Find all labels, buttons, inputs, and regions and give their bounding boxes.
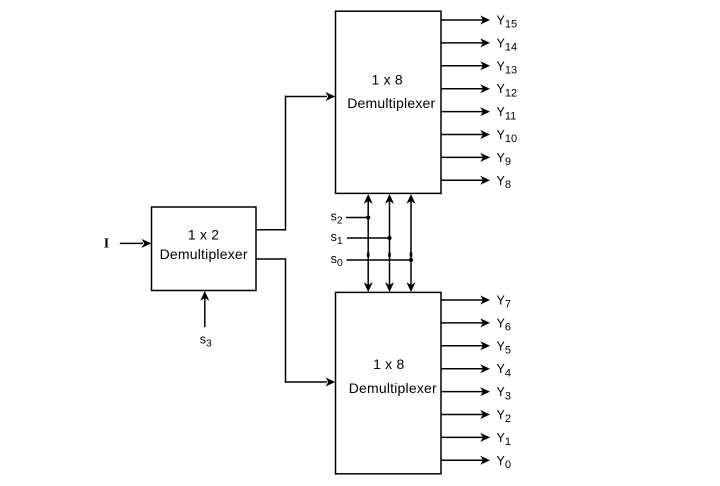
wire output Y4: [441, 368, 484, 370]
junction artifact select line A: [367, 253, 370, 257]
wire I input to U1: [120, 242, 143, 244]
wire output Y6: [441, 322, 484, 324]
arrowhead Y7: [480, 296, 490, 305]
arrowhead I into U1: [142, 239, 152, 248]
arrowhead Y8: [480, 176, 490, 185]
wire U1 bottom output horizontal into U3: [285, 381, 327, 383]
arrowhead Y3: [480, 387, 490, 396]
arrowhead Y14: [480, 38, 490, 47]
wire output Y2: [441, 414, 484, 416]
wire s0 horizontal: [347, 259, 412, 261]
wire output Y12: [441, 88, 484, 90]
svg-text:Y14: Y14: [497, 36, 518, 53]
arrowhead select line C down into U3: [407, 282, 416, 292]
svg-text:Y13: Y13: [497, 59, 518, 76]
arrowhead Y4: [480, 364, 490, 373]
svg-text:Y3: Y3: [497, 385, 511, 402]
svg-text:Y10: Y10: [497, 128, 518, 145]
arrowhead Y10: [480, 130, 490, 139]
svg-text:Y11: Y11: [497, 105, 517, 122]
arrowhead Y2: [480, 410, 490, 419]
arrowhead select line A down into U3: [364, 282, 373, 292]
wire output Y5: [441, 345, 484, 347]
svg-text:Y9: Y9: [497, 151, 511, 168]
svg-text:Demultiplexer: Demultiplexer: [160, 246, 248, 262]
svg-text:Y0: Y0: [497, 454, 511, 471]
arrowhead s3 into U1: [200, 291, 209, 301]
svg-text:1 x 8: 1 x 8: [373, 356, 404, 372]
junction s2 on select line A: [366, 215, 370, 219]
svg-text:s2: s2: [331, 210, 343, 227]
arrowhead select line C up into U2: [407, 194, 416, 204]
wire s2 horizontal: [346, 217, 368, 219]
svg-text:Y4: Y4: [497, 362, 511, 379]
wire output Y15: [441, 19, 484, 21]
svg-text:Demultiplexer: Demultiplexer: [347, 95, 435, 111]
svg-text:I: I: [104, 237, 109, 252]
arrowhead select line A up into U2: [364, 194, 373, 204]
arrowhead Y1: [480, 433, 490, 442]
svg-text:s3: s3: [200, 333, 212, 350]
wire output Y8: [441, 179, 484, 181]
wire select line A vertical: [367, 201, 369, 285]
arrowhead Y11: [480, 107, 490, 116]
svg-text:Demultiplexer: Demultiplexer: [349, 380, 437, 396]
wire select line B vertical: [389, 201, 391, 285]
junction s1 on select line B: [387, 236, 391, 240]
svg-text:Y6: Y6: [497, 316, 511, 333]
wire U1 bottom output horizontal stub: [256, 258, 286, 260]
arrowhead select line B down into U3: [385, 282, 394, 292]
svg-text:Y8: Y8: [497, 174, 511, 191]
demux U2 (top 1 x 8 Demultiplexer) box: [336, 11, 442, 193]
svg-text:Y1: Y1: [497, 431, 511, 448]
wire U1 bottom output vertical dropper: [285, 258, 287, 382]
wire s1 horizontal: [347, 237, 390, 239]
svg-text:Y2: Y2: [497, 408, 511, 425]
svg-text:1 x 2: 1 x 2: [188, 226, 219, 242]
svg-text:Y15: Y15: [497, 14, 518, 31]
arrowhead select line B up into U2: [385, 194, 394, 204]
arrowhead Y0: [480, 456, 490, 465]
wire output Y0: [441, 459, 484, 461]
svg-text:s1: s1: [331, 230, 343, 247]
demux U1 (1 x 2 Demultiplexer) box: [152, 207, 257, 291]
arrowhead Y13: [480, 61, 490, 70]
junction artifact select line C: [410, 253, 413, 257]
wire U1 top output horizontal into U2: [285, 96, 327, 98]
arrowhead Y5: [480, 341, 490, 350]
wire output Y9: [441, 156, 484, 158]
wire output Y10: [441, 134, 484, 136]
wire select line C vertical: [410, 201, 412, 285]
junction s0 on select line C: [409, 258, 413, 262]
arrowhead Y9: [480, 153, 490, 162]
wire output Y11: [441, 111, 484, 113]
svg-text:Y5: Y5: [497, 339, 511, 356]
wire output Y3: [441, 391, 484, 393]
arrowhead Y6: [480, 318, 490, 327]
wire output Y1: [441, 436, 484, 438]
svg-text:Y12: Y12: [497, 82, 518, 99]
arrowhead into U3 input: [326, 378, 336, 387]
junction artifact select line B: [388, 253, 391, 257]
wire s3 select into U1: [204, 296, 206, 327]
svg-text:s0: s0: [331, 252, 343, 269]
arrowhead Y12: [480, 84, 490, 93]
arrowhead Y15: [480, 16, 490, 25]
svg-text:1 x 8: 1 x 8: [372, 72, 403, 88]
wire U1 top output horizontal stub: [256, 229, 286, 231]
wire output Y7: [441, 299, 484, 301]
wire output Y14: [441, 42, 484, 44]
wire U1 top output vertical riser: [285, 96, 287, 231]
wire output Y13: [441, 65, 484, 67]
arrowhead into U2 input: [326, 92, 336, 101]
demux U3 (bottom 1 x 8 Demultiplexer) box: [336, 292, 442, 473]
svg-text:Y7: Y7: [497, 294, 511, 311]
